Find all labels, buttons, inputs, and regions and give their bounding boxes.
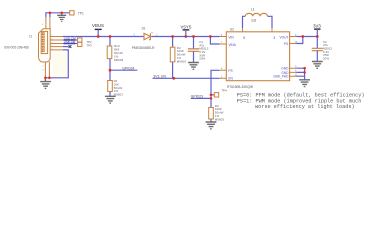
svg-text:2u2: 2u2 xyxy=(251,19,257,23)
svg-text:TP4: TP4 xyxy=(221,88,227,92)
net label USB_DP xyxy=(63,43,78,45)
svg-text:690-005-298-486: 690-005-298-486 xyxy=(4,45,29,49)
pin stubs right VOUT PG GND xyxy=(290,37,297,77)
capacitor C2 xyxy=(316,37,318,49)
svg-text:M0603: M0603 xyxy=(177,59,187,63)
wire TP1/GND top xyxy=(46,13,70,17)
no-connect ID pin xyxy=(63,46,69,48)
net label GPIO23 xyxy=(191,97,211,99)
svg-text:D1: D1 xyxy=(142,26,146,30)
resistor R1 xyxy=(109,70,111,96)
IC U2 body xyxy=(226,32,289,81)
note PS modes xyxy=(237,92,365,110)
resistor R10 xyxy=(109,37,111,71)
svg-text:VOUT: VOUT xyxy=(280,35,289,39)
test point TP4 xyxy=(211,94,214,96)
connector J1 xyxy=(39,17,64,78)
test point TP1 xyxy=(70,11,74,15)
resistor R3 xyxy=(210,98,212,122)
svg-text:20%: 20% xyxy=(323,56,329,60)
wire VINA branch xyxy=(210,37,219,45)
test point TP3 xyxy=(78,42,82,46)
test point TP2 xyxy=(78,38,82,42)
svg-text:U2: U2 xyxy=(230,27,234,31)
svg-text:TP3: TP3 xyxy=(86,43,92,47)
svg-text:worse efficiency at light load: worse efficiency at light loads) xyxy=(255,104,355,110)
svg-text:USB_DP: USB_DP xyxy=(64,40,76,44)
resistor R2 xyxy=(172,37,174,79)
capacitor C1 xyxy=(193,37,195,49)
svg-text:VBUS: VBUS xyxy=(92,23,104,28)
ground under C2 xyxy=(312,62,323,69)
svg-text:5: 5 xyxy=(243,36,245,40)
ground under U2 xyxy=(299,80,310,87)
ground on TP1 wire xyxy=(57,13,66,22)
svg-text:M0603: M0603 xyxy=(114,58,124,62)
svg-text:VSYS: VSYS xyxy=(181,24,192,29)
svg-text:3: 3 xyxy=(273,36,275,40)
svg-text:PS: PS xyxy=(228,69,232,73)
wire 3V3 rail xyxy=(296,36,317,38)
pin stubs VIN VINA xyxy=(220,37,227,45)
wire PG route xyxy=(296,37,303,44)
svg-text:3V3: 3V3 xyxy=(313,23,321,28)
wire PS route xyxy=(211,70,220,98)
svg-text:3V3_EN: 3V3_EN xyxy=(153,75,166,79)
net label USB_DM xyxy=(63,39,78,41)
svg-text:EN: EN xyxy=(228,77,233,81)
wire rail D1 to VIN xyxy=(151,36,219,38)
net label GPIO24 xyxy=(110,69,137,71)
svg-text:GPIO24: GPIO24 xyxy=(122,67,134,71)
svg-text:VIN: VIN xyxy=(228,35,234,39)
svg-text:GPIO23: GPIO23 xyxy=(191,95,203,99)
wire GND pins route xyxy=(296,68,304,80)
svg-text:PG: PG xyxy=(284,42,289,46)
ground under J1 xyxy=(40,78,51,89)
highlight box xyxy=(53,53,68,78)
wire GND pin route xyxy=(45,50,68,78)
net label 3V3_EN wire xyxy=(153,77,220,79)
ground under R3 xyxy=(206,122,217,129)
svg-text:GND_PAD: GND_PAD xyxy=(273,75,289,79)
svg-text:TP1: TP1 xyxy=(78,12,84,16)
svg-text:VINA: VINA xyxy=(228,43,236,47)
pin stubs top of U2 xyxy=(243,28,273,32)
ground under R1 xyxy=(105,96,116,103)
svg-text:L1: L1 xyxy=(251,7,255,11)
svg-text:J1: J1 xyxy=(29,35,33,39)
svg-text:20%: 20% xyxy=(199,57,205,61)
ground under C1 xyxy=(188,63,199,70)
svg-text:PMEG6045ELR: PMEG6045ELR xyxy=(132,46,155,50)
svg-text:RT6150B-33GQW: RT6150B-33GQW xyxy=(227,85,253,89)
pin stubs left PS EN xyxy=(220,70,227,78)
wire VBUS rail xyxy=(63,36,143,38)
svg-text:M0603: M0603 xyxy=(215,117,225,121)
